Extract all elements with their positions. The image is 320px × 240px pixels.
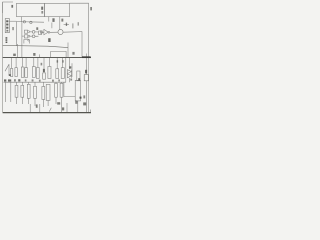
wire x9 short: [8, 64, 10, 75]
wire drop from box at x48.8: [48, 17, 50, 22]
label above bus x13.5: [13, 54, 16, 56]
block U1 top register box: [16, 3, 44, 16]
label bottom right x84.5: [83, 102, 86, 105]
wire row1 drop x16.1: [15, 58, 17, 68]
label 14 under box: [52, 18, 54, 22]
wire amp to oscillator: [50, 31, 58, 33]
label 10 top left outside: [11, 5, 13, 8]
wire R17 leads: [55, 82, 57, 104]
oscillator X1 circle: [58, 29, 63, 34]
label right of J1: [12, 27, 14, 30]
wire vertical x16.4 long: [15, 22, 17, 46]
wire from J1 to node: [9, 20, 16, 22]
wire horizontal y21.6 run: [16, 21, 44, 24]
wire row1 drop x57.2: [56, 58, 58, 69]
border left edge: [2, 2, 4, 112]
label diagonal 7 above bus: [72, 52, 74, 55]
wire R15 leads: [42, 82, 44, 107]
wire R14 bottom: [34, 98, 36, 106]
tick above bus x39.5: [39, 54, 41, 57]
resistor R2: [15, 68, 17, 77]
label above bus x34: [33, 53, 35, 56]
node block mixer: [39, 31, 42, 35]
label inside U1: [41, 7, 43, 10]
wire x39.8 to bottom rail: [39, 104, 41, 112]
capacitor C1 small blob: [40, 31, 42, 33]
wire R16 bottom: [47, 100, 49, 106]
diode D1: [67, 70, 71, 74]
label above R5: [41, 63, 43, 66]
wire row2 drop x5.7: [5, 82, 7, 102]
wire row1 drop x72: [71, 63, 73, 77]
resistor R13: [27, 84, 30, 98]
label bottom x36.5: [36, 104, 38, 107]
label 30 above relay: [48, 38, 50, 42]
wire right border lower: [87, 58, 89, 112]
wire row2 R13 leads: [28, 82, 30, 104]
wire gate row 1: [30, 31, 39, 33]
resistor R16 tall: [46, 84, 50, 100]
wire right x86.5 lower: [86, 81, 88, 113]
resistor R6: [37, 68, 40, 79]
label FIG column left: [6, 37, 8, 39]
wire oscillator output long run: [63, 32, 82, 58]
wire row2 drop x35: [34, 82, 36, 86]
wire drop from box at x59.8 to oscillator: [59, 17, 61, 30]
resistor R1: [10, 69, 12, 77]
label bottom x75.8: [75, 101, 77, 104]
connector J1 left pin box: [5, 19, 9, 33]
bus rail y46: [3, 45, 68, 47]
wire into amp: [42, 31, 44, 33]
resistor R3: [21, 67, 24, 77]
resistor R12: [21, 85, 24, 97]
label 24 tick: [66, 23, 67, 26]
label dashes x72.6: [72, 23, 73, 28]
wire row2 drop x10.8: [10, 82, 12, 102]
resistor R18: [60, 83, 63, 97]
block tall right register: [75, 80, 80, 101]
wire R18 leads: [61, 82, 63, 112]
wire mid right x86.5: [86, 54, 88, 75]
wire x63.9 bottom left of block: [64, 82, 75, 96]
diode bar: [71, 70, 73, 78]
bus rail2 y82.2: [4, 81, 67, 83]
component K1 small box above rail: [24, 40, 29, 44]
resistor R10: [61, 68, 64, 79]
op-amp A1 triangle: [44, 29, 48, 34]
resistor R15: [42, 87, 45, 100]
wire under tall block: [77, 101, 79, 113]
label bottom dot x9.5: [9, 74, 11, 76]
block U2 top register box right compartment: [45, 3, 70, 16]
wire x30.2 to bottom rail: [29, 104, 31, 112]
resistor R7: [43, 73, 46, 79]
label above R10: [62, 60, 64, 62]
wire row1 drop x44: [43, 58, 45, 69]
wire row1 drop x22.7: [22, 58, 24, 67]
gate G2 body: [24, 35, 27, 38]
junction dot right lower: [80, 97, 82, 99]
border frame top-left stub: [3, 2, 13, 13]
resistor R9: [56, 69, 59, 79]
label 16 under box: [61, 19, 63, 22]
label inside U1 lower: [41, 11, 43, 14]
wire row1 drop x62.7: [62, 58, 64, 68]
relay box above main bus: [51, 51, 66, 57]
wire x67 to bottom rail: [66, 103, 68, 112]
transistor Q4 circle: [32, 35, 35, 38]
labels row y79-82: [4, 79, 6, 81]
label 12 right margin: [90, 7, 92, 10]
op-amp A1 output bubble: [48, 31, 50, 33]
pin labels J1: [6, 20, 8, 22]
wire vertical x51.9: [51, 23, 53, 29]
pointer diagonal bottom center: [49, 108, 51, 112]
wire vertical x68 to bus: [67, 43, 69, 58]
label mid row1 36: [43, 69, 45, 72]
label x78: [78, 22, 79, 25]
label 26 text mid cluster: [36, 27, 38, 30]
resistor R5: [32, 67, 35, 78]
wire row1 drop x49.4: [48, 58, 50, 66]
wire row1 drop x11.6: [11, 58, 13, 68]
capacitor C2 bubble: [28, 40, 30, 42]
wire row1 drop x33.8: [33, 58, 35, 67]
main bus rail y57.5: [3, 57, 91, 59]
resistor R4: [25, 68, 28, 78]
resistor R11: [15, 85, 18, 97]
wire vertical x21.9 long: [21, 22, 23, 58]
wire row2 R12 leads: [21, 82, 23, 104]
gate G1 output bubble: [28, 31, 30, 33]
wire row1 drop x37.9: [37, 58, 39, 67]
wire row1 drop x26.1: [25, 58, 27, 68]
label above R9: [57, 60, 59, 62]
wire stub left of gates: [22, 35, 25, 37]
resistor R14: [34, 86, 37, 98]
tick bottom right: [90, 110, 92, 113]
wire stub y24.6 right of divider: [64, 24, 69, 26]
border right edge: [70, 3, 89, 56]
capacitor C3 box: [77, 71, 80, 81]
label above diodes: [69, 66, 71, 68]
wire top box drop at x21.7: [21, 17, 23, 22]
label right x85.5 mid: [85, 70, 87, 74]
wire row1 drop x69.4 diode chain: [68, 58, 70, 82]
label bottom x62.8: [62, 107, 64, 110]
label bottom x58: [57, 102, 60, 104]
component right small box: [84, 75, 88, 81]
transistor Q2 bubble on wire: [30, 21, 32, 23]
wire gate row 2: [30, 35, 39, 37]
diode D2: [67, 74, 71, 78]
transistor Q1 bubble on wire: [23, 21, 25, 23]
gate G1 body: [24, 30, 27, 33]
gate G2 output bubble: [28, 35, 30, 37]
ground rail bottom: [3, 112, 91, 114]
resistor R17: [55, 83, 58, 97]
main bus dark right end: [82, 56, 91, 58]
resistor R8: [48, 67, 51, 79]
transistor Q3 circle: [32, 31, 35, 34]
pointer line bottom left diagonal: [5, 64, 9, 71]
wire row2 R11 leads: [16, 82, 18, 104]
wire vertical x17.6: [17, 44, 19, 58]
wire row1 drop x65.8 long: [65, 58, 67, 82]
